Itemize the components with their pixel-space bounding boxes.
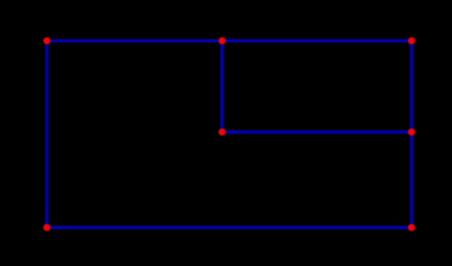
node top-left [43, 37, 50, 44]
wire right edge [410, 41, 413, 228]
node middle [219, 129, 226, 136]
node bottom-left [43, 224, 50, 231]
wire middle horizontal [222, 130, 412, 133]
node bottom-right [408, 224, 415, 231]
wire left edge [45, 41, 48, 228]
node top-right [408, 37, 415, 44]
wire bottom edge [47, 226, 412, 229]
node middle-right [408, 129, 415, 136]
node top-middle [219, 37, 226, 44]
wire top edge [47, 39, 412, 42]
wire middle vertical [220, 41, 223, 132]
